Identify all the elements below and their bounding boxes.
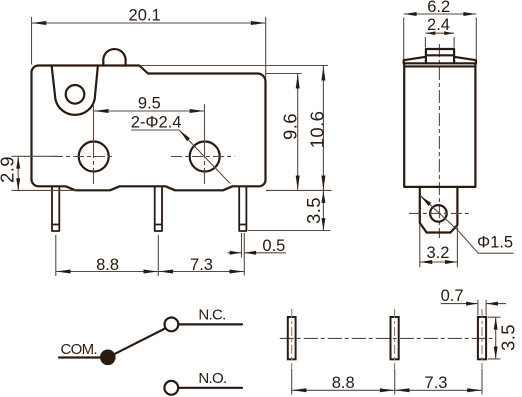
svg-text:3.2: 3.2 [427, 244, 450, 262]
arrowheads dim 8.8 front [56, 270, 158, 274]
dim 10.6 line [322, 66, 324, 191]
arrowheads dim 10.6 [321, 66, 325, 190]
dim 0.5 extension lines [242, 233, 245, 276]
dim 3.5 line (bottom view) [495, 317, 497, 359]
mounting hole left [79, 142, 109, 172]
dim 8.8/7.3 line (bottom view) [292, 389, 482, 391]
dim 2.9 extension lines [12, 156, 77, 190]
dim 8.8/7.3 line (front) [56, 271, 245, 273]
hole centerline vertical right [204, 142, 206, 184]
dim 0.7 line [441, 303, 506, 305]
side view cap flare right [454, 57, 476, 64]
dim 20.1 line [32, 22, 266, 24]
svg-text:8.8: 8.8 [332, 374, 355, 392]
svg-text:9.5: 9.5 [138, 95, 161, 113]
arrowheads dim 6.2 [404, 12, 476, 16]
svg-text:3.5: 3.5 [303, 197, 324, 224]
pin 2 centerline (bottom view) [394, 309, 396, 368]
svg-text:2.4: 2.4 [427, 16, 450, 34]
extension line pin bottom right [248, 230, 331, 232]
dim 2.4 line [425, 32, 454, 34]
pin 3 centerline (bottom view) [481, 309, 483, 368]
wire N.O. terminal [179, 387, 242, 389]
terminal pin 1 (front view) [52, 186, 59, 231]
arrowheads dim 0.5 [230, 251, 256, 255]
tab hole centerline [409, 212, 470, 214]
side view body [404, 64, 475, 187]
dim 3.5 line (front) [322, 190, 324, 230]
switch body outline (front view) [32, 66, 266, 191]
ear hole [66, 85, 85, 104]
dim 3.5 extension lines (bottom view) [488, 317, 501, 359]
dim 9.5 line [94, 110, 205, 112]
hole extension line vertical left [93, 104, 95, 142]
svg-text:20.1: 20.1 [129, 6, 161, 24]
pin 1 centerline (bottom view) [291, 309, 293, 368]
plunger button bump (front view) [103, 49, 125, 65]
extension line body bottom right [266, 189, 332, 191]
svg-text:2-Φ2.4: 2-Φ2.4 [131, 114, 182, 132]
arrowheads dim 20.1 [32, 21, 266, 25]
hole extension line vertical right [204, 104, 206, 142]
side view bottom tab [420, 187, 458, 233]
hole centerline horizontal left [52, 156, 115, 158]
bottom view pin 2 [391, 317, 399, 359]
wire COM terminal [59, 356, 102, 358]
arrowheads dim 2.4 [426, 31, 454, 35]
contact circle N.O. [164, 381, 178, 395]
arrowheads dim 2.9 [16, 157, 20, 191]
svg-text:Φ1.5: Φ1.5 [477, 234, 513, 252]
terminal pin 3 (front view) [239, 186, 246, 231]
svg-text:2.9: 2.9 [0, 156, 18, 183]
dim 6.2 line [404, 13, 477, 15]
bottom view centerline [280, 337, 493, 339]
arrowheads dim 0.7 [466, 302, 498, 306]
side view cap seam lines [404, 63, 476, 66]
dim 20.1 extension lines [32, 17, 266, 78]
side view cap flare left [404, 57, 426, 64]
svg-text:N.O.: N.O. [198, 370, 226, 387]
svg-text:3.5: 3.5 [498, 324, 519, 351]
svg-text:8.8: 8.8 [96, 256, 119, 274]
dim 3.2 line [420, 261, 458, 263]
svg-text:7.3: 7.3 [425, 374, 448, 392]
arrowheads dim 3.2 [420, 260, 457, 264]
contact circle N.C. [165, 318, 179, 332]
extension line top right (10.6 top) [140, 65, 328, 67]
extension line body top right (9.6 top) [266, 73, 302, 75]
phi1.5 leader line [420, 196, 513, 254]
svg-text:9.6: 9.6 [280, 113, 301, 140]
hole centerline vertical left [93, 142, 95, 185]
arrowheads dim 9.5 [94, 109, 204, 113]
wire lever COM to N.C. [108, 329, 165, 358]
arrowheads dim 3.5 front [321, 191, 325, 230]
arrowheads dim 9.6 [296, 74, 300, 190]
2-phi2.4 label underline and leader [131, 130, 230, 183]
mounting ear (front view) [52, 66, 98, 115]
hole centerline horizontal right [171, 156, 235, 158]
dim 2.9 line [17, 156, 19, 190]
mounting hole right [190, 142, 220, 172]
arrowhead 2-phi2.4 leader [180, 130, 190, 141]
node COM (filled dot) [100, 350, 116, 366]
bottom view pin 3 [478, 317, 486, 359]
dim 3.2 extension lines [420, 224, 458, 267]
pin extension lines for 8.8/7.3 (front) [56, 235, 159, 276]
arrowhead phi1.5 leader [420, 196, 431, 206]
dim 0.5 line [228, 252, 287, 254]
svg-text:N.C.: N.C. [198, 307, 225, 324]
arrowheads dim 7.3 front [159, 270, 244, 274]
extension lines 8.8/7.3 (bottom view) [292, 369, 482, 395]
dim 0.7 extension lines [478, 300, 486, 316]
svg-text:0.7: 0.7 [441, 287, 464, 305]
arrowheads dim 8.8 bottom [292, 388, 394, 392]
dim 6.2 extension lines [404, 18, 477, 60]
dim 2.4 extension lines [425, 37, 454, 48]
tab hole phi1.5 [430, 205, 447, 222]
terminal pin 2 (front view) [155, 186, 162, 231]
arrowheads dim 3.5 bottom [494, 318, 498, 359]
side view plunger button [426, 49, 454, 63]
wire N.C. terminal [179, 323, 242, 325]
svg-text:COM.: COM. [61, 341, 97, 358]
side view centerline [438, 44, 440, 238]
svg-text:10.6: 10.6 [307, 111, 328, 149]
bottom view pin 1 [288, 317, 296, 359]
svg-text:0.5: 0.5 [262, 237, 285, 255]
svg-text:6.2: 6.2 [427, 0, 450, 16]
svg-text:7.3: 7.3 [190, 256, 213, 274]
dim 9.6 line [297, 74, 299, 191]
arrowheads dim 7.3 bottom [395, 388, 482, 392]
